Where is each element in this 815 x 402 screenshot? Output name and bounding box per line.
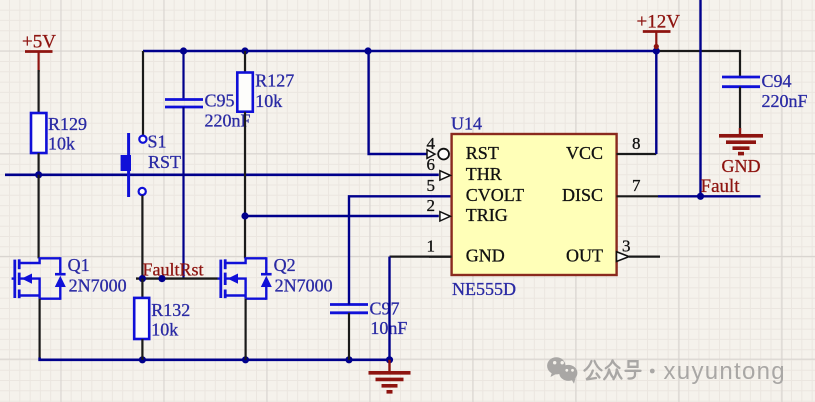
capacitor C95 220nF <box>165 91 251 131</box>
svg-text:R127: R127 <box>255 71 294 91</box>
wire Fault vertical <box>699 0 701 196</box>
switch S1 RST <box>121 132 181 198</box>
svg-text:C97: C97 <box>370 299 400 319</box>
svg-text:1: 1 <box>427 236 436 255</box>
wire rail to S1 <box>142 51 144 136</box>
wire CVOLT to C97 <box>349 196 452 304</box>
wire RST row (net RST horizontal) <box>5 174 439 177</box>
pin 8 stub to +12V <box>617 153 657 155</box>
node junction R129/RST <box>35 171 42 178</box>
svg-text:+12V: +12V <box>637 12 681 33</box>
svg-text:220nF: 220nF <box>762 91 808 111</box>
wire C94 to ground <box>739 87 741 130</box>
wire Q2 source to rail <box>245 299 247 360</box>
svg-text:CVOLT: CVOLT <box>466 185 524 205</box>
resistor R132 10k <box>134 279 190 360</box>
wire C97 to rail <box>348 313 350 360</box>
svg-text:U14: U14 <box>451 114 482 134</box>
wire pin 3 OUT <box>629 256 660 258</box>
svg-text:R129: R129 <box>48 114 87 134</box>
svg-text:DISC: DISC <box>562 185 603 205</box>
wire R129 to RST row <box>37 153 39 175</box>
svg-text:3: 3 <box>622 236 631 255</box>
wire VCC column <box>655 51 657 154</box>
svg-text:8: 8 <box>632 134 641 153</box>
svg-text:THR: THR <box>466 164 502 184</box>
svg-text:10k: 10k <box>151 320 178 340</box>
pin 6 input triangle <box>440 171 451 180</box>
watermark chinese glyphs <box>585 361 641 380</box>
wire pin4 from rail <box>369 51 427 154</box>
resistor R127 10k <box>237 71 294 112</box>
svg-text:C94: C94 <box>762 71 792 91</box>
transistor Q2 2N7000 <box>218 255 333 300</box>
wire rail to C94 <box>656 51 740 77</box>
capacitor C97 10nF <box>330 299 407 339</box>
wire Q1 source to ground rail <box>38 299 40 358</box>
svg-text:10k: 10k <box>255 91 282 111</box>
wire top rail <box>143 50 656 53</box>
svg-text:Fault: Fault <box>701 176 741 197</box>
wire +5V to R129 <box>37 70 39 114</box>
pin 1 stub <box>429 256 452 258</box>
pin 3 output triangle <box>617 252 630 262</box>
svg-text:R132: R132 <box>151 300 190 320</box>
wire Q1 drain column <box>37 175 39 259</box>
svg-text:RST: RST <box>148 152 181 172</box>
wire rail to C95 <box>182 51 184 99</box>
svg-text:220nF: 220nF <box>205 111 251 131</box>
svg-text:RST: RST <box>466 143 499 163</box>
node rail/Q2 source <box>242 356 249 363</box>
node FaultRst/S1-R132 <box>139 275 146 282</box>
node rail/R132 <box>139 356 146 363</box>
svg-text:2: 2 <box>427 196 436 215</box>
wire R127 to TRIG row / Q2 drain <box>244 112 246 259</box>
svg-text:VCC: VCC <box>566 143 603 163</box>
svg-text:+5V: +5V <box>22 32 56 53</box>
node Fault junction <box>697 193 704 200</box>
node rail/R127 <box>241 47 248 54</box>
wire ground rail <box>40 358 390 360</box>
svg-text:6: 6 <box>427 155 436 174</box>
capacitor C94 220nF <box>722 71 808 111</box>
node rail/GND symbol <box>386 356 393 363</box>
svg-text:4: 4 <box>427 134 436 153</box>
svg-text:Q2: Q2 <box>274 255 296 275</box>
ground earth symbol bottom <box>369 360 411 392</box>
ground GND symbol right <box>719 128 763 176</box>
svg-text:xuyuntong: xuyuntong <box>664 358 786 385</box>
watermark wechat icon <box>547 357 577 384</box>
svg-text:S1: S1 <box>148 132 167 152</box>
svg-text:OUT: OUT <box>566 245 603 265</box>
node junction R127/TRIG <box>241 212 248 219</box>
svg-text:C95: C95 <box>205 91 235 111</box>
transistor Q1 2N7000 <box>12 255 127 300</box>
svg-text:NE555D: NE555D <box>452 279 516 299</box>
op-amp/timer U14 NE555D body <box>451 114 617 300</box>
svg-text:TRIG: TRIG <box>466 205 508 225</box>
wire FaultRst row <box>136 277 218 279</box>
svg-text:FaultRst: FaultRst <box>143 260 204 280</box>
svg-text:GND: GND <box>466 245 505 265</box>
svg-text:5: 5 <box>427 176 436 195</box>
watermark dot separator <box>650 369 655 374</box>
svg-text:2N7000: 2N7000 <box>69 276 127 296</box>
wire GND pin1 <box>390 256 452 258</box>
pin 7 DISC wire <box>617 195 659 197</box>
svg-text:GND: GND <box>722 156 761 176</box>
node rail/C95 <box>180 47 187 54</box>
power +5V <box>22 32 56 73</box>
svg-text:2N7000: 2N7000 <box>275 276 333 296</box>
wire S1 to FaultRst row <box>141 195 143 278</box>
svg-text:10k: 10k <box>48 134 75 154</box>
pin 4 inverting bubble <box>438 149 449 160</box>
pin 4 input triangle <box>427 150 435 159</box>
svg-text:Q1: Q1 <box>68 255 90 275</box>
resistor R129 <box>31 113 87 154</box>
power +12V <box>637 12 681 50</box>
wire C95 to FaultRst row <box>182 107 184 279</box>
wire rail to R127 <box>244 51 246 73</box>
node rail/+12V <box>653 47 660 54</box>
wire TRIG row <box>245 215 439 218</box>
node FaultRst dot <box>158 275 165 282</box>
node rail/C97 <box>345 356 352 363</box>
svg-text:7: 7 <box>632 176 641 195</box>
pin 2 input triangle <box>440 212 451 221</box>
node rail/pin4 drop <box>364 47 371 54</box>
